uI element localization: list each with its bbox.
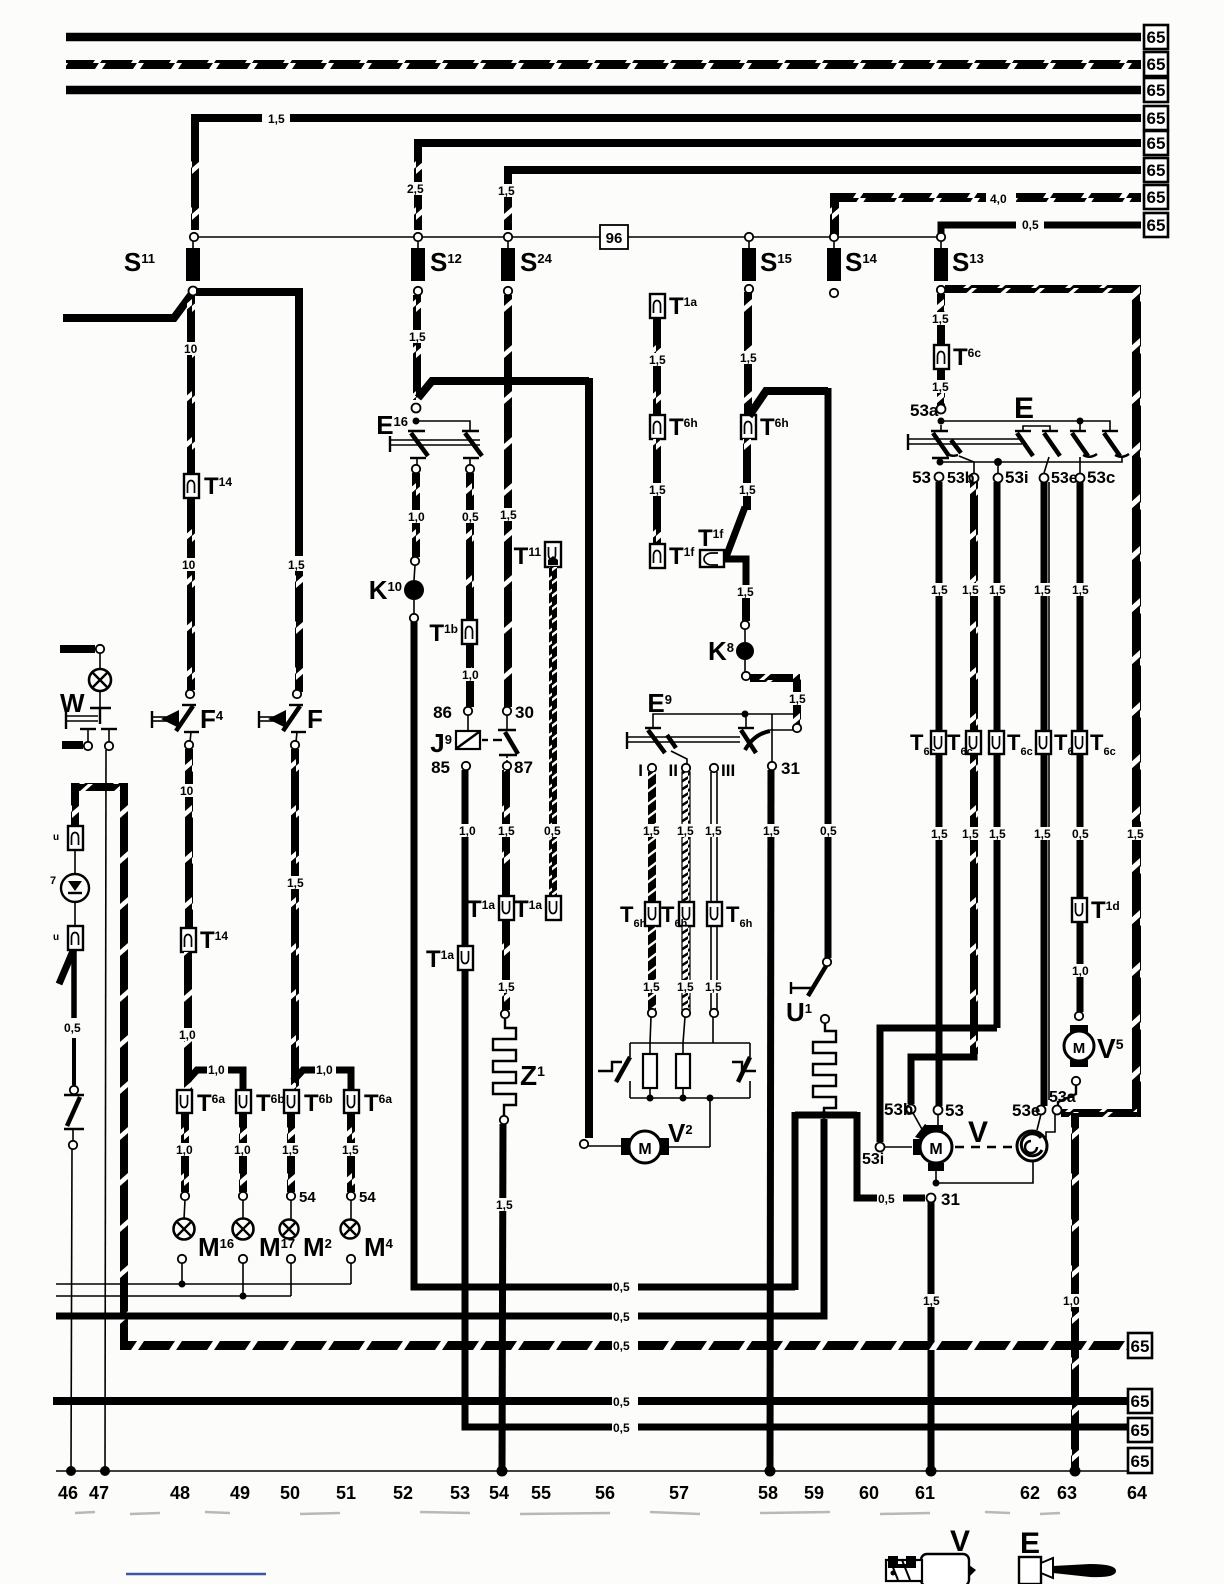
svg-text:E: E [1020,1527,1040,1560]
svg-text:1,5: 1,5 [932,380,949,394]
node circle 53a wiper [1053,1106,1062,1115]
svg-text:1,0: 1,0 [1072,964,1089,978]
wire barber pole T11 to T1a with gauge 0,5 [549,567,557,896]
svg-text:0,5: 0,5 [878,1192,895,1206]
svg-text:1,0: 1,0 [208,1063,225,1077]
wire 53i column with gauge 1,5 [994,482,1001,1028]
node circle below S14 dead end [830,289,838,297]
node circle W switch left contact [84,742,92,750]
svg-text:1,5: 1,5 [989,583,1006,597]
wire stub diagonal [59,951,73,984]
wire striped F4 column mid with gauge 10 [187,498,195,690]
svg-text:1,0: 1,0 [234,1143,251,1157]
svg-text:65: 65 [1131,1392,1150,1411]
node circle E9 III [710,764,718,772]
wire bus line 2 striped (terminal 65) [66,60,1141,69]
node circle 85 [462,762,470,770]
switch arm E5 [1102,430,1118,432]
wire hatched E9 II lower with gauge 1,5 [682,926,690,1010]
svg-text:31: 31 [781,759,800,778]
wire V motor to pump common [935,1166,937,1181]
terminal box 65 bus5 [1128,1418,1152,1442]
svg-text:62: 62 [1020,1483,1040,1503]
node circle below K10 [410,614,418,622]
fuse S13 [940,241,942,248]
junction dots resistor box [647,1095,654,1102]
svg-text:53c: 53c [1087,468,1115,487]
svg-text:65: 65 [1147,188,1166,207]
wire double line E9 III lower with gauge 1,5 [710,926,712,1010]
svg-text:65: 65 [1131,1452,1150,1471]
svg-text:1,5: 1,5 [268,112,285,126]
wire bus line 1 (terminal 65) [66,33,1141,42]
thermal switch left in resistor box [598,1062,622,1071]
junction dots on ground rail [66,1466,76,1476]
node circle below V5 [1072,1077,1080,1085]
lamp M17 [242,1200,244,1219]
switch W wiper control [99,691,101,708]
svg-text:0,5: 0,5 [613,1310,630,1324]
switch arm E 53b contact [951,440,961,453]
connector T1f on service column [650,544,665,568]
svg-text:1,5: 1,5 [677,824,694,838]
node circle 53i [994,474,1003,483]
connector T1a on T11 column [546,896,561,920]
node circle below U1 arm [821,1015,829,1023]
connector T6h row on E9 I [645,902,660,926]
wire vertical to wiper motor V2 [585,378,593,1138]
wire diagonal into T1f [726,507,745,557]
terminal box 65 line3 [1144,78,1168,102]
svg-text:65: 65 [1147,81,1166,100]
node circle below S12 [414,287,422,295]
terminal box 65 line6 [1144,158,1168,182]
svg-text:0,5: 0,5 [462,510,479,524]
fuse S15 [748,241,750,248]
lamp M16 [184,1200,185,1219]
svg-text:65: 65 [1147,161,1166,180]
wire K10 column down to bus1 [414,622,795,1287]
wire striped service column with gauge 1,5 [653,318,661,415]
wire left column with gauge 0,5 [71,951,77,1018]
wire 85 column solid with gauge 1,0 [462,770,469,946]
legend drawing switch lever E [1019,1557,1041,1584]
svg-text:30: 30 [515,703,534,722]
connector T1d [1072,898,1087,922]
wire branch F to T6a with gauge 1,0 [293,1070,351,1092]
wire bus line 5 from S12 (terminal 65) [418,143,1141,155]
svg-text:1,5: 1,5 [287,876,304,890]
svg-text:52: 52 [393,1483,413,1503]
svg-text:1,5: 1,5 [962,583,979,597]
node circles above resistor box [648,1009,656,1017]
svg-text:53a: 53a [910,401,939,420]
svg-text:0,5: 0,5 [820,824,837,838]
wire striped lamp 3 with gauge 1,5 [287,1113,295,1192]
wire striped above S11 [191,128,199,230]
svg-text:u: u [53,832,59,843]
switch arm E2 [1015,430,1031,432]
svg-text:65: 65 [1147,28,1166,47]
node circle lamp 1 [181,1192,189,1200]
svg-text:48: 48 [170,1483,190,1503]
node circle 53b wiper [907,1105,916,1114]
switch arm E9 middle [667,735,676,748]
wire V5 to 53a node [1058,1085,1076,1106]
svg-text:1,5: 1,5 [649,353,666,367]
terminal box 65 line1 [1144,25,1168,49]
svg-text:1,5: 1,5 [643,824,660,838]
svg-text:53e: 53e [1051,470,1078,487]
svg-text:1,5: 1,5 [705,980,722,994]
lamp M2 [290,1200,292,1219]
svg-text:1,5: 1,5 [498,824,515,838]
wire striped right edge column [1132,285,1141,1117]
svg-text:55: 55 [531,1483,551,1503]
svg-text:10: 10 [184,342,198,356]
svg-text:1,5: 1,5 [931,827,948,841]
node circle below F [291,741,299,749]
legend drawing wiper motor V [921,1554,969,1584]
svg-text:65: 65 [1147,55,1166,74]
wire striped above S24 with gauge 1,5 [504,177,512,230]
splice K10 [404,580,424,600]
svg-text:47: 47 [89,1483,109,1503]
switch link bar E9 [626,732,628,749]
svg-text:46: 46 [58,1483,78,1503]
wire striped F4 column lower with gauge 10 [185,749,193,928]
wire double line E9 III with gauge 1,5 [710,772,712,902]
svg-text:1,5: 1,5 [932,312,949,326]
terminal box 65 bus4 [1128,1389,1152,1413]
svg-text:1,5: 1,5 [989,827,1006,841]
svg-text:1,5: 1,5 [498,184,515,198]
node circle E9 I [648,764,656,772]
svg-text:53i: 53i [1005,468,1029,487]
svg-text:1,5: 1,5 [1034,827,1051,841]
connector T6c row 2 [966,731,981,754]
terminal box 65 line5 [1144,131,1168,155]
wire 87 column striped to Z1 with gauge 1,5 [502,920,510,1010]
connector T6b lamp row 3 [284,1090,299,1113]
node circle above U1 [823,958,831,966]
svg-text:85: 85 [431,758,450,777]
connector T1a on 87 column [499,896,514,920]
node circle lamp 3 terminal 54 [287,1192,295,1200]
svg-text:61: 61 [915,1483,935,1503]
connector T6a lamp row 4 [344,1090,359,1113]
svg-text:59: 59 [804,1483,824,1503]
wire striped 53b column with gauge 1,5 [970,482,978,1054]
wire barber pole E9 I with gauge 1,5 [648,772,656,902]
svg-text:0,5: 0,5 [613,1421,630,1435]
svg-text:0,5: 0,5 [544,824,561,838]
svg-text:53: 53 [912,468,931,487]
wire striped S13 column upper with gauge 1,5 [937,294,945,345]
blue rule bottom [126,1573,266,1576]
wire striped F column lower with gauge 1,5 [291,749,299,1090]
wire gauge on right edge column [1126,827,1146,840]
svg-text:57: 57 [669,1483,689,1503]
node circles below lamps [178,1255,186,1263]
svg-text:1,5: 1,5 [789,692,806,706]
node circle below S15 [745,285,753,293]
node circle 53i wiper [876,1143,885,1152]
diode warning device [61,874,89,902]
node circle 53c [1076,474,1085,483]
wire striped T1b to relay with gauge 1,0 [466,644,474,707]
wire 53e column with gauge 1,5 [1041,482,1048,1106]
svg-text:I: I [638,761,643,780]
node circle above F4 [186,690,194,698]
switch F4 door contact [151,711,153,728]
connector T6h row on E9 II [679,902,694,926]
node circle 53 [935,473,944,482]
wire 61 column to ground rail with gauge 1,5 [928,1202,935,1471]
svg-text:1,5: 1,5 [1034,583,1051,597]
svg-text:65: 65 [1147,109,1166,128]
svg-text:2,5: 2,5 [407,182,424,196]
svg-text:0,5: 0,5 [613,1339,630,1353]
node circle below left switch [69,1141,77,1149]
wire U-link left leg to bus1 [792,1112,799,1290]
blower motor V5 [1070,1025,1088,1032]
fuse S12 [417,241,419,248]
svg-text:1,5: 1,5 [649,483,666,497]
svg-text:60: 60 [859,1483,879,1503]
node circle above K10 [411,557,419,565]
connector above diode [68,826,83,850]
wire striped S15 column with gauge 1,5 [744,292,752,415]
connector T6h on service column [650,415,665,439]
svg-text:7: 7 [50,875,56,887]
svg-text:1,0: 1,0 [462,668,479,682]
wire striped above S12 with gauge 2,5 [414,150,422,230]
fuse S24 [507,241,509,248]
connector T1a on 85 column [458,946,473,970]
node circle above S14 [830,233,838,241]
svg-text:1,0: 1,0 [316,1063,333,1077]
svg-text:III: III [721,761,735,780]
svg-text:53: 53 [945,1101,964,1120]
switch arm E9 right [738,727,754,729]
relay J9 contact 30/87 [503,707,511,715]
svg-text:u: u [53,932,59,943]
svg-text:1,5: 1,5 [282,1143,299,1157]
node circle 31 wiper [927,1194,936,1203]
svg-text:1,5: 1,5 [1072,583,1089,597]
svg-text:65: 65 [1147,134,1166,153]
connector T14 lower [181,928,196,952]
svg-text:31: 31 [941,1190,960,1209]
svg-text:1,5: 1,5 [677,980,694,994]
svg-text:87: 87 [514,758,533,777]
node line connecting fuse tops [194,236,600,238]
connector T1f horizontal [700,550,724,567]
svg-text:1,0: 1,0 [176,1143,193,1157]
wire striped K8 to E9 feed with gauge 1,5 [750,674,800,682]
svg-text:0,5: 0,5 [64,1021,81,1035]
node circle 53 wiper [934,1106,943,1115]
wire T1d to V5 with gauge 1,0 [1077,922,1084,1012]
svg-text:F: F [307,704,323,734]
svg-text:1,5: 1,5 [705,824,722,838]
svg-text:1,5: 1,5 [409,330,426,344]
node circle below K8 [742,672,750,680]
wire striped lamp 1 with gauge 1,0 [181,1113,189,1192]
svg-text:V: V [968,1116,988,1149]
wire striped 63 column to ground rail with gauge 1,0 [1071,1113,1079,1471]
connector T6h on S15 column [741,415,756,439]
wire 53b link from E switch [911,1054,974,1104]
svg-text:E: E [1014,392,1034,425]
switch U1 intermittent relay [790,982,792,994]
wire hatched E9 II with gauge 1,5 [682,772,690,902]
svg-text:1,5: 1,5 [342,1143,359,1157]
connector T6b lamp row 2 [236,1090,251,1113]
svg-text:54: 54 [489,1483,509,1503]
svg-text:58: 58 [758,1483,778,1503]
connector T1b [462,620,477,644]
node circle above K8 [741,621,749,629]
resistor element II [682,1043,684,1054]
svg-text:4,0: 4,0 [990,192,1007,206]
svg-text:1,5: 1,5 [1127,827,1144,841]
node circle E9 switch feed [793,724,801,732]
wire gauge 0,5 on bus1 [612,1279,638,1292]
node circle below S24 [504,287,512,295]
terminal box 65 bus3 [1128,1333,1152,1358]
node circle E16 left output [412,465,420,473]
svg-text:1,5: 1,5 [500,508,517,522]
connector T6c row 1 [931,731,946,754]
switch arm E9 curved [770,729,793,731]
svg-text:1,5: 1,5 [923,1294,940,1308]
relay J9 coil [467,715,469,731]
node circle above S13 [937,233,945,241]
node circle above S12 [414,233,422,241]
wire striped S24 column to relay 30 with gauge 1,5 [504,295,512,707]
wire striped bus3 to terminal 65 [120,1341,1128,1350]
wire striped S13 to right edge [945,285,1137,293]
switch arm E4 [1070,430,1086,432]
node circle E16 right output [466,465,474,473]
node circle above left switch [70,1086,78,1094]
junction dot below main arm [937,459,944,466]
node circle 53b [970,474,979,483]
svg-text:49: 49 [230,1483,250,1503]
connector T6h row on E9 III [707,902,722,926]
svg-text:1,5: 1,5 [740,351,757,365]
wire branch F4 to T6b with gauge 1,0 [187,1070,243,1092]
wire 53i link from E switch [880,1028,997,1142]
node circle 87 [503,762,511,770]
wire 87 column striped with gauge 1,5 [502,770,510,896]
svg-text:53b: 53b [884,1100,913,1119]
node circle above V5 [1075,1012,1083,1020]
node circle below S11 [189,287,198,296]
svg-text:M: M [1073,1040,1086,1057]
resistor element I [649,1043,651,1054]
switch link bar E [907,434,909,450]
wire striped lamp 2 with gauge 1,0 [239,1113,247,1192]
svg-text:M: M [929,1141,942,1158]
wire barber pole E9 I lower with gauge 1,5 [648,926,656,1010]
node circle above S11 [190,233,198,241]
node line B lamp common [56,1295,291,1297]
node circle below F4 [185,741,193,749]
wire striped E16 right with gauge 0,5 [466,473,474,620]
svg-text:65: 65 [1131,1337,1150,1356]
svg-text:10: 10 [180,784,194,798]
connector T11 [545,542,561,567]
svg-text:10: 10 [182,558,196,572]
wire bus line 4 from S11 (terminal 65) [195,118,1141,130]
node circle 53a [937,405,946,414]
splice K8 [736,642,754,660]
svg-text:1,5: 1,5 [931,583,948,597]
connector T6a lamp row 1 [177,1090,192,1113]
connector T6c row 5 [1072,731,1087,754]
svg-text:0,5: 0,5 [1022,218,1039,232]
wire thin from W switch to ground rail [105,750,106,1471]
wire U-link middle leg to bus2 [56,1119,824,1316]
junction dot U1 out [820,1111,828,1119]
wire striped 53a to right edge column [1061,1109,1137,1117]
node circle E9 II [682,764,690,772]
svg-text:0,5: 0,5 [1072,827,1089,841]
lamp M4 [350,1200,352,1219]
node circle lamp 2 [239,1192,247,1200]
node circle at lamp W feed [96,645,104,653]
svg-text:96: 96 [606,230,623,247]
wire striped S13 column lower with gauge 1,5 [937,369,945,405]
svg-text:1,5: 1,5 [962,827,979,841]
svg-text:1,5: 1,5 [498,980,515,994]
wire 85 column down to bus5 [465,970,1141,1427]
terminal box 65 line2 [1144,52,1168,76]
wire U-link right leg to terminal 31 [857,1112,925,1198]
node circle 86 [464,707,472,715]
svg-text:1,5: 1,5 [496,1198,513,1212]
wire from left margin to S11 node [63,295,191,318]
svg-text:1,0: 1,0 [408,510,425,524]
svg-text:1,0: 1,0 [1063,1294,1080,1308]
node circle E9 31 [768,762,776,770]
washer pump symbol [1017,1131,1047,1161]
ground rail baseline [56,1470,1128,1472]
switch arm E9 I [645,727,661,729]
node circle above S24 [504,233,512,241]
wire from W switch left contact [62,741,83,749]
fuse S14 [833,241,835,248]
svg-text:65: 65 [1147,216,1166,235]
svg-text:53: 53 [450,1483,470,1503]
motor V armature [913,1139,922,1155]
wire 53c column with gauge 0,5 [1077,482,1084,898]
dashed mechanical link V [955,1146,1014,1148]
connector T14 upper [184,474,199,498]
connector T1a top of service column [650,294,665,318]
fuse S11 [192,241,194,248]
wire striped service column lower with gauge 1,5 [653,439,661,544]
svg-text:51: 51 [336,1483,356,1503]
thermal switch right in resistor box [732,1062,756,1071]
svg-text:1,5: 1,5 [763,824,780,838]
wire striped F4 column upper with gauge 10 [187,295,195,475]
wire U-link horizontal [795,1112,857,1119]
svg-text:86: 86 [433,703,452,722]
